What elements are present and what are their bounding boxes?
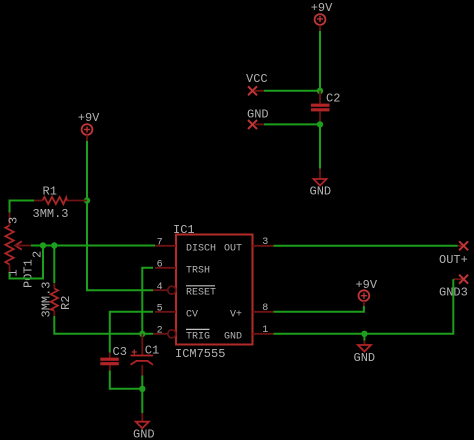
supply +9V (top right) [311, 1, 333, 31]
wire GND3 down to pin1 net [274, 279, 454, 334]
capacitor C2 [311, 91, 340, 125]
ground symbol (top right) [310, 169, 332, 199]
pin 8 V+ [230, 303, 274, 321]
svg-text:8: 8 [262, 303, 268, 314]
svg-text:DISCH: DISCH [186, 243, 216, 254]
node junction GND/C2 [317, 121, 323, 127]
pin 5 CV [155, 304, 198, 321]
svg-text:OUT: OUT [224, 243, 242, 254]
node junction TRIG/C1/TRSH [139, 331, 145, 337]
net flag GND3 [439, 275, 468, 300]
wire VCC flag to rail [264, 90, 320, 92]
svg-text:CV: CV [186, 309, 198, 320]
net flag GND (top) [247, 108, 269, 130]
svg-text:R2: R2 [59, 296, 73, 310]
pin 7 DISCH [155, 238, 216, 255]
svg-text:POT1: POT1 [22, 259, 36, 288]
svg-text:TRIG: TRIG [186, 331, 210, 342]
node junction R2 top [51, 242, 57, 248]
svg-text:GND: GND [247, 108, 269, 122]
node junction VCC/C2 [317, 88, 323, 94]
svg-text:GND: GND [354, 351, 376, 365]
svg-text:+9V: +9V [355, 278, 377, 292]
wire C2 bottom to ground [319, 124, 321, 168]
svg-text:VCC: VCC [246, 72, 268, 86]
node junction wiper/bottom [40, 242, 46, 248]
svg-text:7: 7 [157, 238, 163, 249]
svg-text:RESET: RESET [186, 288, 216, 299]
node junction pin1 net / ground [361, 331, 367, 337]
resistor R1 [33, 185, 88, 222]
pin 4 RESET (inverted) [153, 282, 216, 299]
ground symbol (bottom center) [133, 413, 155, 440]
svg-text:GND: GND [310, 185, 332, 199]
wire OUT net [274, 245, 458, 247]
svg-text:4: 4 [157, 282, 163, 293]
wire +9V rail down to RESET row [87, 141, 153, 290]
node junction R1/rail [84, 197, 90, 203]
svg-text:3: 3 [7, 217, 21, 224]
capacitor C3 [100, 345, 127, 371]
svg-text:5: 5 [157, 304, 163, 315]
svg-text:TRSH: TRSH [186, 265, 210, 276]
wire down to ground symbol [141, 389, 143, 413]
svg-text:+9V: +9V [311, 1, 333, 15]
wire down to R2 [53, 246, 55, 284]
svg-text:GND: GND [133, 428, 155, 440]
wire C3 bottom to ground net [110, 371, 143, 389]
pin 1 GND [224, 325, 274, 343]
node junction ground net [139, 386, 145, 392]
wire C1 bottom to ground node [141, 376, 143, 389]
supply +9V (left) [78, 111, 100, 141]
pin 6 TRSH [155, 260, 210, 277]
wire R1 left to POT1 top [10, 201, 35, 213]
svg-text:ICM7555: ICM7555 [175, 347, 225, 361]
svg-text:V+: V+ [230, 309, 242, 320]
net flag VCC [246, 72, 268, 95]
pin 3 OUT [224, 237, 274, 255]
svg-text:3MM.3: 3MM.3 [33, 207, 69, 221]
svg-text:OUT+: OUT+ [439, 253, 468, 267]
wire R2 bottom to TRIG net [54, 316, 153, 334]
svg-text:2: 2 [157, 326, 163, 337]
wire DISCH net (wiper to pin 7) [31, 245, 155, 247]
svg-text:1: 1 [262, 325, 268, 336]
supply +9V (pin 8) [355, 278, 377, 306]
svg-text:+9V: +9V [78, 111, 100, 125]
ic IC1 ICM7555 [173, 223, 253, 361]
resistor R2 [40, 281, 74, 317]
wire GND flag to rail [264, 123, 320, 125]
svg-text:C2: C2 [326, 92, 340, 106]
wire POT1 bottom to wiper node [10, 246, 44, 279]
net flag OUT+ [439, 241, 468, 267]
capacitor C1 (polarized) [131, 334, 160, 376]
potentiometer POT1 [5, 213, 44, 289]
wire CV net to C3 [110, 312, 153, 353]
wire +9V rail down to VCC node [319, 31, 321, 91]
svg-text:3MM.3: 3MM.3 [40, 281, 54, 317]
wire down to ground symbol (right) [363, 334, 365, 341]
svg-text:3: 3 [262, 237, 268, 248]
wire +9V to pin 8 [274, 306, 364, 312]
pin 2 TRIG (inverted) [153, 326, 210, 343]
svg-text:C3: C3 [113, 345, 127, 359]
ground symbol (right) [354, 341, 376, 366]
wire TRSH vertical (pin6 to TRIG node) [142, 268, 153, 334]
svg-text:6: 6 [157, 260, 163, 271]
svg-text:GND: GND [224, 331, 242, 342]
